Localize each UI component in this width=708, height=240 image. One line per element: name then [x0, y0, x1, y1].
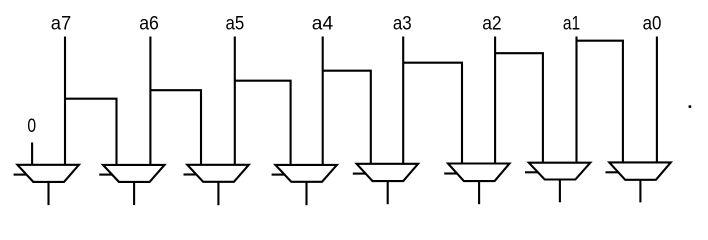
- svg-text:0: 0: [27, 115, 36, 137]
- svg-text:a5: a5: [226, 13, 245, 35]
- svg-text:a4: a4: [312, 13, 333, 35]
- svg-text:a7: a7: [51, 13, 71, 35]
- svg-text:a6: a6: [139, 13, 159, 35]
- svg-text:a1: a1: [563, 13, 580, 35]
- svg-text:a2: a2: [482, 13, 501, 35]
- svg-text:a3: a3: [393, 13, 412, 35]
- svg-text:a0: a0: [643, 13, 662, 35]
